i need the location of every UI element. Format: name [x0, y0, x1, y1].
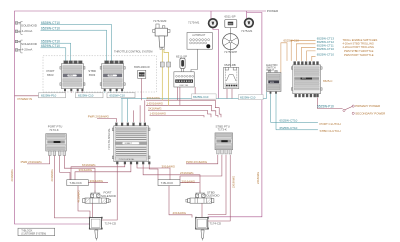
svg-text:SOLENOID: SOLENOID	[21, 42, 38, 46]
wire: 6800 to 7175-SPP	[230, 28, 232, 34]
wire: orange troll wire to 6525W-CT10	[307, 51, 316, 61]
module U3 ELECTRO SWITCH 6525-H	[267, 70, 282, 93]
wire: stbd solenoid output to stbd junction	[201, 203, 203, 217]
svg-text:PWM STBD THROTTLE: PWM STBD THROTTLE	[344, 49, 374, 53]
wire: cyan 6529W-CT10 to stbd 6503 pin 1	[41, 30, 107, 61]
wire: power drop to right gauge 7175-M1	[246, 13, 248, 19]
svg-text:4-20mA: 4-20mA	[22, 29, 34, 33]
svg-text:6505-2900-W: 6505-2900-W	[134, 65, 150, 69]
wire: 7173-TK bottom pin5 2X16AWG to stbd solenoid	[143, 164, 200, 193]
wire: stbd PTU pin4 2X18AWG to stbd junction (2)	[208, 155, 230, 221]
svg-text:6503: 6503	[47, 73, 54, 77]
wire: autopilot drop to 6507-SB strip	[191, 49, 197, 72]
svg-text:6525W-CT10: 6525W-CT10	[317, 47, 335, 51]
wire: from left gauge down to stbd PTU pin 1 (magenta)	[213, 28, 219, 99]
svg-text:7173-TK-SPECIAL: 7173-TK-SPECIAL	[119, 158, 135, 161]
svg-text:2X18AWG: 2X18AWG	[10, 169, 14, 181]
svg-text:PORT CLUTCH: PORT CLUTCH	[320, 122, 341, 126]
svg-text:6525: 6525	[302, 78, 306, 80]
svg-text:6525-C: 6525-C	[323, 79, 332, 83]
wire: stbd PTU pin2 to stbd T-BLOCK	[180, 155, 222, 180]
wire: power drop to left gauge 7175-M1	[210, 11, 212, 19]
wire: 7175-SPP to 6545-RB	[230, 50, 232, 68]
svg-text:PWR 2X18AWG: PWR 2X18AWG	[88, 114, 110, 118]
wire: bus row 1 (3X16AWG) port PTU pin1 to stbd side	[146, 100, 221, 117]
svg-text:T-BLOCK: T-BLOCK	[21, 228, 32, 232]
svg-text:3X16AWG: 3X16AWG	[147, 96, 161, 100]
autopilot interface box	[187, 33, 212, 50]
wire: 7173-TK top pins 4,5,6 rising to bus rows	[133, 100, 144, 122]
solenoid input 1 terminals and bracket	[15, 22, 22, 35]
svg-text:TROLL ENABLE SWITCHES: TROLL ENABLE SWITCHES	[343, 38, 378, 42]
wire: POWER IN branch to 6525W-P10 label box	[15, 95, 39, 97]
svg-text:PRIMARY POWER: PRIMARY POWER	[355, 104, 380, 108]
svg-text:6X16AWG: 6X16AWG	[82, 163, 96, 167]
wire: 6507-SB strip drops to bus	[177, 87, 180, 105]
svg-text:2X18AWG: 2X18AWG	[50, 169, 54, 181]
wire: cyan port clutch 6525W-CT10	[271, 92, 318, 123]
module U2 STBD 6503	[100, 61, 125, 91]
svg-text:PWM PORT THROTTLE: PWM PORT THROTTLE	[344, 53, 374, 57]
relay 6545-RB	[224, 67, 239, 88]
svg-text:1-EX16AWG: 1-EX16AWG	[150, 112, 167, 116]
svg-text:6525W-C10: 6525W-C10	[240, 96, 256, 100]
svg-text:PWR 2X16AWG: PWR 2X16AWG	[21, 160, 43, 164]
svg-text:7176-SM3: 7176-SM3	[153, 19, 167, 23]
svg-text:6503: 6503	[109, 75, 113, 77]
svg-text:7175-SPP: 7175-SPP	[224, 50, 237, 54]
svg-text:4-20mA STBD TROLLING: 4-20mA STBD TROLLING	[343, 42, 374, 46]
svg-text:6525W-CT10: 6525W-CT10	[317, 53, 335, 57]
svg-text:6503: 6503	[69, 75, 73, 77]
solenoid input 2 terminals and bracket	[15, 40, 22, 53]
wire: 6525W-P10 power out to changeover switch	[317, 98, 342, 109]
svg-text:2X18AWG: 2X18AWG	[232, 176, 236, 188]
stbd T-BLOCK	[158, 180, 180, 186]
svg-text:SOLENOID: SOLENOID	[205, 194, 220, 198]
wire: orange troll wire to 6525W-CT13	[291, 40, 315, 61]
wire: cyan stbd clutch 6525W-CT10	[276, 92, 318, 130]
svg-text:7175-M1: 7175-M1	[241, 29, 253, 33]
wire: 7173-TK bottom pin4 3X16AWG to stbd T-BLOCK	[137, 164, 170, 180]
wire: stbd PTU pin3 2X18AWG to stbd junction	[208, 155, 226, 215]
svg-text:6525W-C10: 6525W-C10	[284, 39, 300, 43]
svg-text:AUTOPILOT: AUTOPILOT	[192, 34, 206, 37]
wire: port T-BLOCK bottom 4X16AWG to port junction	[78, 186, 90, 218]
svg-text:6525W-C10: 6525W-C10	[110, 94, 126, 98]
svg-text:6529W-CT10: 6529W-CT10	[41, 44, 60, 48]
port solenoid valve	[83, 191, 111, 204]
svg-text:6528W-CT10: 6528W-CT10	[41, 39, 60, 43]
wire: stbd T-BLOCK out 2X16AWG	[180, 182, 200, 184]
spinner 7175-SPP	[223, 34, 239, 50]
svg-text:T-BLOCK: T-BLOCK	[70, 181, 82, 185]
wire: orange troll wire to 6525W-CT10 (2)	[312, 56, 316, 61]
svg-text:2X16AWG: 2X16AWG	[182, 179, 196, 183]
stbd solenoid valve	[186, 191, 214, 204]
svg-text:6503: 6503	[89, 73, 96, 77]
svg-text:3X16AWG: 3X16AWG	[79, 168, 93, 172]
module U7 7173-TK-SPECIAL	[112, 123, 150, 165]
wire: port PTU pin3 to port T-BLOCK	[60, 156, 70, 180]
svg-text:6525W-CT10: 6525W-CT10	[280, 126, 298, 130]
module U4 6525-C troll control	[291, 61, 322, 97]
wire: 7173-TK bottom pin2 6X16AWG to port T-BLOCK	[71, 164, 125, 180]
wire: stbd PTU pin1 PWR 2X16AWG open end	[186, 155, 218, 164]
module U5 PORT PTU 7173-K	[46, 134, 67, 156]
wire: HOM1 sensor drop to bus	[141, 78, 143, 100]
wire: cyan 6529W-CT10 to port 6503 pin 1	[41, 48, 66, 61]
connector 6511-SP (lower)	[180, 58, 185, 68]
svg-text:SOLENOID: SOLENOID	[21, 24, 38, 28]
svg-text:6525W-C10: 6525W-C10	[78, 94, 94, 98]
wire: cyan 6528W-CT10 to stbd 6503 pin 2	[41, 25, 112, 61]
wire: bus row 4 (1-EX16AWG)	[150, 116, 205, 118]
wire: PWR 2X18AWG to 7173-TK top pin 1	[97, 118, 116, 122]
svg-text:THROTTLE CONTROL SYSTEM: THROTTLE CONTROL SYSTEM	[114, 49, 152, 53]
label box 6525W-C10 (port)	[76, 93, 104, 98]
wire: 6507-SB right side drop	[194, 87, 196, 99]
wire: port T-BLOCK out 3X16AWG	[88, 182, 108, 184]
svg-text:SOLENOID: SOLENOID	[101, 194, 116, 198]
wire: port 6503 bottom pin drops to bus rows	[65, 92, 82, 93]
port junction box 7174-CD	[89, 217, 103, 241]
gauge 7175-M1 (right)	[245, 19, 254, 28]
connector 7176-SM3	[153, 24, 170, 49]
connector 6511-SP with 6800 insert	[225, 20, 237, 28]
wire: stbd T-BLOCK bottom 4X16AWG to stbd junction	[169, 186, 192, 218]
svg-text:2X18AWG: 2X18AWG	[256, 172, 260, 184]
svg-text:6511-SP: 6511-SP	[176, 55, 187, 59]
svg-text:7174-CD: 7174-CD	[105, 222, 117, 226]
svg-text:6511-SP: 6511-SP	[225, 15, 236, 19]
svg-text:POWER IN: POWER IN	[18, 97, 33, 101]
port T-BLOCK	[67, 180, 89, 186]
svg-text:(CUSTOMER SYSTEM): (CUSTOMER SYSTEM)	[21, 234, 46, 236]
module U1 PORT 6503	[60, 61, 85, 91]
svg-text:3X16AWG: 3X16AWG	[148, 107, 162, 111]
in-line connector squares on kavlico harness	[160, 62, 170, 67]
svg-text:4-20mA: 4-20mA	[22, 48, 34, 52]
wire: main POWER bus (magenta) top edge, left edge and bottom run to port junction	[15, 11, 267, 224]
svg-text:PWR 2X16AWG: PWR 2X16AWG	[186, 160, 208, 164]
wire: bus row 3 (3X16AWG)	[148, 110, 211, 117]
wire: port PTU pin1 PWR 2X16AWG open end	[27, 156, 50, 164]
svg-text:4X16AWG: 4X16AWG	[173, 211, 187, 215]
wire: port PTU pin4 to port solenoid	[64, 156, 95, 193]
wire: orange 6525W-C10 from label down to electro switch	[281, 43, 287, 73]
svg-text:6507-SB: 6507-SB	[180, 85, 189, 87]
wire: 6545-RB drops to cyan run	[227, 89, 232, 99]
svg-text:7173-K: 7173-K	[218, 128, 227, 132]
wire: orange troll wire to 6525W-CT11	[302, 47, 316, 61]
svg-text:HOM1: HOM1	[139, 75, 144, 77]
label box 6525W-P10	[39, 93, 66, 98]
wire: power branch to stbd junction (magenta, long right vertical)	[208, 11, 262, 217]
wire: yellow kavlico harness B from 7176-SM3 plug	[164, 49, 169, 105]
label box 6525W-C10 (stbd)	[107, 93, 135, 98]
svg-text:2X16AWG: 2X16AWG	[180, 171, 194, 175]
wire: orange troll wire to 6525W-CT12	[296, 44, 315, 61]
wire: 7173-TK bottom pin6 to stbd T-BLOCK 2	[149, 164, 158, 180]
svg-text:6525: 6525	[270, 82, 274, 84]
module U6 STBD PTU 7173-K	[215, 133, 233, 154]
wire: cyan drops to 7173-TK top pins 2,3	[122, 99, 128, 123]
svg-text:6525-H: 6525-H	[266, 69, 274, 72]
svg-text:7173-K: 7173-K	[49, 128, 58, 132]
svg-text:KOBELT: KOBELT	[125, 143, 133, 145]
wire label 6525W-C10 floats	[192, 94, 217, 99]
svg-text:STBD CLUTCH: STBD CLUTCH	[320, 129, 341, 133]
changeover switch primary/secondary power	[343, 105, 354, 114]
svg-text:6525W-P10: 6525W-P10	[41, 94, 57, 98]
throttle control system dashed enclosure	[43, 56, 157, 92]
svg-text:4-20mA PORT TROLLING: 4-20mA PORT TROLLING	[343, 45, 375, 49]
wire: 7173-TK bottom pin3 3X16AWG to port T-BLOCK	[75, 164, 131, 180]
svg-text:SECONDARY POWER: SECONDARY POWER	[355, 111, 385, 115]
wire: stbd 6503 bottom pin drops to cyan run	[105, 92, 122, 93]
wire: bus row 2 (1-EX16AWG)	[146, 105, 218, 117]
gauge 7175-M1 (left)	[209, 19, 218, 28]
svg-text:7173-TK-SPECIAL: 7173-TK-SPECIAL	[107, 128, 111, 150]
svg-text:1-EX16AWG: 1-EX16AWG	[147, 101, 164, 105]
svg-text:6528W-CT10: 6528W-CT10	[41, 21, 60, 25]
svg-text:3X16AWG: 3X16AWG	[90, 179, 104, 183]
svg-text:6545-RB: 6545-RB	[224, 63, 235, 67]
svg-text:6525W-CT10: 6525W-CT10	[280, 118, 298, 122]
wire: yellow kavlico harness A from 7176-SM3 plug	[161, 49, 163, 100]
wire: port PTU pin2 2X18AWG down to port junction	[54, 156, 89, 218]
svg-text:POWER: POWER	[267, 9, 279, 13]
svg-text:6525W-P10: 6525W-P10	[317, 105, 334, 109]
wire: port solenoid output to port junction	[92, 203, 94, 217]
svg-text:4X16AWG: 4X16AWG	[76, 190, 80, 202]
title block T-BLOCK (customer system)	[18, 228, 55, 236]
svg-text:6529W-CT10: 6529W-CT10	[41, 26, 60, 30]
terminal strip 6507-SB	[174, 72, 194, 87]
wire: 6511-SP to 6507-SB strip	[182, 68, 184, 71]
svg-text:7175-M1: 7175-M1	[188, 21, 200, 25]
stbd junction box 7174-CD	[195, 217, 209, 241]
wire: 7173-TK bottom pin1 to port junction right	[102, 164, 118, 220]
wire: cyan run 6525W-C10 from stbd label box to electro switch	[121, 92, 267, 99]
svg-text:T-BLOCK: T-BLOCK	[161, 181, 173, 185]
svg-text:6525W-C10: 6525W-C10	[193, 95, 209, 99]
sensor HOM1 (6505-2900-W)	[138, 70, 146, 78]
wire: cyan 6528W-CT10 to port 6503 pin 2	[41, 43, 71, 61]
svg-text:7174-CD: 7174-CD	[210, 222, 222, 226]
svg-text:3X16AWG: 3X16AWG	[162, 164, 176, 168]
